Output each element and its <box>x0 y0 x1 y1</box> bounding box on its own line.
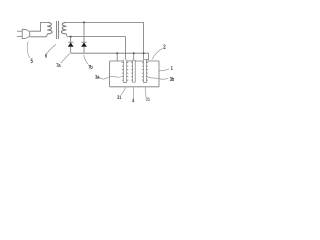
leader 4 <box>132 87 135 98</box>
transformer T core <box>57 21 59 39</box>
wire bus stub to cover <box>116 53 118 61</box>
wire bus hook to right electrode <box>144 53 149 59</box>
electrode 3b side ticks <box>142 63 148 81</box>
wire plug bottom to primary bottom <box>29 34 47 37</box>
tank bottom <box>110 86 159 88</box>
wire bus stub to middle electrode <box>133 53 135 60</box>
electrode 3a side ticks <box>122 63 128 81</box>
label 4 <box>132 98 134 102</box>
leader 5 <box>27 42 30 58</box>
wire secondary bottom lead <box>66 34 125 37</box>
wire bus <box>71 52 149 54</box>
junction top wire / D2 <box>83 21 85 23</box>
electrode 3b plate <box>143 60 146 83</box>
junction bus / right vertical <box>143 52 145 54</box>
electrode 4 side ticks <box>131 63 132 81</box>
diode D1 anode lead <box>70 47 72 54</box>
wire plug top to primary (step up) <box>30 22 48 31</box>
leader 3a <box>99 76 123 79</box>
transformer T secondary winding <box>61 22 66 34</box>
wire secondary top lead <box>66 21 143 23</box>
tank right wall <box>158 61 160 87</box>
label 7a <box>56 63 60 67</box>
label 1 <box>171 66 173 70</box>
diode D1 (7a) cathode stub <box>70 37 72 43</box>
transformer T primary winding <box>47 22 52 34</box>
junction bus / cover stub <box>116 52 118 54</box>
label 31 right <box>146 98 150 101</box>
label 3a <box>95 75 99 79</box>
leader 31 right <box>144 87 147 97</box>
electrode 4 plate <box>133 60 136 82</box>
label 3b <box>170 77 174 81</box>
leader 7b <box>84 55 89 65</box>
electrode 3a plate <box>123 60 126 83</box>
wire top lead vertical to right electrode <box>143 22 145 59</box>
electrode 3b plate body (white) <box>144 60 147 83</box>
label 6 <box>45 54 47 58</box>
leader 6 <box>46 44 56 54</box>
label 5 <box>31 59 33 63</box>
diode D2 (7b) vertical to top wire <box>83 22 85 42</box>
diode D1 triangle <box>68 42 74 46</box>
junction bus / middle electrode <box>133 52 135 54</box>
electrode 4 plate body (white) <box>133 60 135 82</box>
label 31 left <box>117 95 121 99</box>
plug P prong lower <box>17 35 22 37</box>
junction secondary bottom / D1 <box>70 36 72 38</box>
plug P body <box>22 29 30 38</box>
leader 3b <box>148 77 168 79</box>
tank left wall <box>109 61 111 87</box>
leader 2 <box>152 48 163 59</box>
tank cover line (item 2) <box>110 60 159 62</box>
electrode 3a plate body (white) <box>124 60 127 83</box>
label 7b <box>88 65 92 69</box>
leader 7a <box>61 54 70 63</box>
label 2 <box>163 45 165 49</box>
diode D1 cathode bar <box>68 41 73 43</box>
diode D2 anode lead <box>83 47 85 54</box>
leader 31 left <box>121 87 125 95</box>
plug P (item 5) prong upper <box>17 30 22 32</box>
wire left electrode hanger <box>125 37 127 60</box>
diode D2 triangle <box>81 42 87 46</box>
leader 1 <box>159 69 169 72</box>
diode D2 cathode bar <box>81 41 86 43</box>
